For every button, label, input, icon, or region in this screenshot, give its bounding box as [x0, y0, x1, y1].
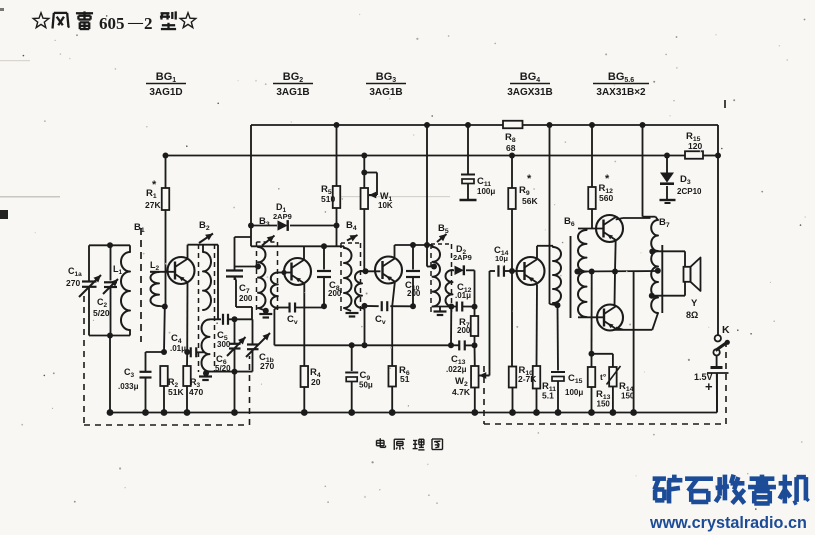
inductor L2	[150, 271, 159, 273]
junction dots tank	[107, 242, 113, 248]
junction dot Cv2 left	[362, 303, 368, 309]
resistor R3	[186, 352, 188, 366]
volume potentiometer W2	[471, 366, 479, 388]
capacitor C10	[412, 245, 414, 270]
junction dot C13 left	[448, 342, 454, 348]
svg-text:2-7K: 2-7K	[518, 374, 537, 384]
antenna bar B1 (dashed)	[140, 228, 142, 342]
capacitor C3	[140, 371, 152, 373]
wire BG2 base	[278, 272, 291, 274]
resistor R12	[591, 125, 593, 187]
svg-text:51K: 51K	[168, 387, 184, 397]
wire B3 primary bottom to ground	[258, 308, 266, 311]
wire BG4 collector	[536, 246, 538, 258]
junction dot base node	[363, 268, 369, 274]
svg-text:50μ: 50μ	[359, 381, 373, 390]
svg-text:K: K	[722, 324, 730, 336]
wire B4 primary bottom ground	[344, 308, 351, 311]
junction dots ground rail	[107, 409, 114, 416]
transistor BG3	[375, 257, 402, 284]
svg-text:—: —	[127, 15, 144, 31]
wire bottom ground rail	[110, 412, 717, 414]
svg-text:270: 270	[66, 278, 80, 288]
svg-text:t°: t°	[600, 372, 607, 382]
transformer B7 feed from rail	[642, 125, 644, 217]
junction dot bottom node	[232, 369, 238, 375]
svg-text:20: 20	[311, 377, 321, 387]
wire branch to C7	[235, 236, 252, 238]
wire collector load vertical	[217, 245, 219, 320]
wire B4 secondary bottom riser	[362, 308, 365, 309]
junction dots top rail	[334, 122, 340, 128]
wire BG4 base	[512, 270, 525, 272]
transformer B4 secondary	[355, 271, 362, 308]
transformer B3 secondary	[271, 273, 278, 309]
resistor R11	[533, 366, 541, 389]
svg-text:100μ: 100μ	[565, 388, 583, 397]
svg-text:2CP10: 2CP10	[677, 187, 702, 196]
neutralizing capacitor Cv (BG2)	[288, 303, 290, 313]
transformer B6 secondary upper	[578, 230, 587, 272]
wire bias top link	[592, 353, 613, 355]
svg-text:3AG1B: 3AG1B	[276, 87, 309, 98]
junction dot collector bus	[410, 242, 416, 248]
wire supply drop to B6	[549, 125, 551, 304]
junction dots C8	[321, 243, 327, 249]
svg-text:150: 150	[597, 400, 611, 409]
wire long AF/AGC bus	[274, 344, 451, 346]
transformer B3 primary	[257, 245, 259, 248]
svg-text:*: *	[605, 173, 610, 185]
wire BG3 base	[362, 270, 381, 272]
wire B3 tap	[235, 266, 259, 268]
junction dot B5 ground node	[448, 304, 454, 310]
svg-text:*: *	[152, 179, 157, 191]
svg-text:2AP9: 2AP9	[273, 212, 292, 221]
dashed link W2 to switch K	[483, 366, 485, 424]
junction dots second rail	[163, 153, 169, 159]
svg-text:200: 200	[328, 289, 342, 298]
capacitor C7	[234, 267, 236, 270]
wire main vertical to C4 node	[163, 307, 166, 353]
svg-text:200: 200	[407, 289, 421, 298]
battery 1.5V	[716, 356, 718, 367]
transistor BG6	[597, 305, 623, 331]
wire C3 branch	[146, 351, 165, 353]
capacitor C5	[218, 318, 221, 320]
wire D2 cathode riser	[474, 270, 476, 306]
capacitor C9 (electrolytic)	[351, 345, 353, 371]
resistor R6	[388, 366, 396, 387]
svg-text:.01μ: .01μ	[170, 344, 186, 353]
transformer B7 core	[661, 245, 663, 313]
transformer B6 primary	[552, 246, 554, 247]
transformer B2 primary winding	[202, 245, 204, 252]
resistor R1	[165, 156, 167, 189]
transformer B3 shield (dashed) with arrow	[256, 242, 258, 311]
junction dots emitter bus	[574, 269, 580, 275]
svg-text:.01μ: .01μ	[455, 291, 471, 300]
wire BG5 collector	[616, 218, 623, 220]
svg-text:68: 68	[506, 143, 516, 153]
svg-text:10K: 10K	[378, 201, 393, 210]
wire BG6 collector	[614, 272, 617, 306]
svg-text:4.7K: 4.7K	[452, 387, 471, 397]
resistor R2	[160, 366, 168, 386]
wire BG1 collector	[187, 245, 189, 259]
junction dot R7 bottom	[472, 342, 478, 348]
switch K	[715, 335, 721, 341]
variable capacitor C1a	[82, 280, 97, 282]
svg-text:270: 270	[260, 361, 274, 371]
wire B3 secondary bottom riser	[274, 308, 277, 309]
svg-text:3AGX31B: 3AGX31B	[507, 87, 553, 98]
diode D2 2AP9	[453, 269, 455, 271]
junction dot B5 tap	[431, 264, 437, 270]
svg-text:8Ω: 8Ω	[686, 310, 698, 320]
resistor R10	[511, 271, 513, 367]
potentiometer W1 (AGC)	[363, 156, 365, 189]
svg-text:Y: Y	[691, 298, 698, 309]
transformer B6 core	[570, 236, 572, 318]
variable capacitor C1b	[252, 319, 254, 344]
svg-text:*: *	[527, 173, 532, 185]
wire BG5 emitter	[614, 240, 617, 272]
wire BG2 emitter	[303, 284, 305, 308]
wire BG2 collector	[303, 246, 305, 259]
transistor BG2	[284, 258, 311, 285]
wire BG3 collector	[394, 245, 396, 258]
wire C7 bottom to C1b top node	[235, 277, 237, 280]
wire W2 wiper riser to C14	[489, 271, 491, 376]
wire BG5 base	[586, 229, 588, 231]
svg-text:3AX31B×2: 3AX31B×2	[596, 87, 646, 98]
wire node to C1b riser	[235, 318, 253, 320]
wire osc top node	[210, 318, 219, 320]
svg-text:5/20: 5/20	[93, 308, 110, 318]
wire tank bottom	[89, 335, 130, 337]
transformer B6 secondary lower	[578, 272, 587, 317]
wire BG6 base	[586, 316, 588, 318]
svg-text:2AP9: 2AP9	[453, 253, 472, 262]
junction dots B7 taps	[649, 249, 655, 255]
resistor R8 (inline top rail)	[503, 121, 523, 129]
svg-text:100μ: 100μ	[477, 187, 495, 196]
junction dot C12 right	[472, 304, 478, 310]
junction dot emitters node	[612, 269, 618, 275]
watermark 矿石收音机	[653, 476, 666, 481]
ground B5	[439, 307, 441, 311]
resistor R15 (inline second rail)	[685, 151, 703, 159]
svg-text:51: 51	[400, 374, 410, 384]
junction dot emitter node	[184, 349, 190, 355]
resistor R5	[336, 125, 338, 186]
transformer B5 shield (dashed) with arrow	[430, 244, 432, 312]
capacitor C8	[323, 246, 325, 269]
wire BG3 emitter	[392, 283, 395, 307]
caption 电原理图	[379, 438, 381, 447]
wire detector bus BG2	[274, 307, 288, 309]
capacitor C12	[456, 302, 458, 312]
junction dot L2 bottom	[162, 304, 168, 310]
wire right edge vertical	[717, 125, 719, 335]
junction dots D1 wire	[248, 223, 254, 229]
gang link dashed C1a-C1b	[83, 296, 85, 425]
wire BG1 emitter	[186, 283, 188, 353]
wire battery riser right	[716, 373, 718, 413]
svg-text:605: 605	[99, 14, 125, 33]
transformer B7 primary	[656, 217, 659, 220]
transformer B2 shield (dashed) with tuning arrow	[198, 244, 200, 372]
resistor R7	[474, 307, 476, 316]
capacitor C15 (electrolytic)	[557, 305, 560, 370]
svg-text:200: 200	[457, 326, 471, 335]
thermistor R14	[612, 354, 614, 367]
wire detector output bus	[433, 306, 457, 308]
title 风雷 605-2 型	[33, 13, 49, 28]
neutralizing capacitor Cv (BG3)	[381, 301, 383, 311]
svg-text:470: 470	[189, 387, 203, 397]
wire tank top	[89, 244, 130, 246]
scan artifacts	[265, 83, 267, 85]
svg-text:5.1: 5.1	[542, 391, 554, 401]
svg-text:510: 510	[321, 194, 335, 204]
wire emitter to R4	[303, 308, 305, 367]
trimmer capacitor C6	[234, 319, 236, 343]
wire emitters to ground rail	[633, 272, 635, 413]
wire B5 tap	[427, 266, 434, 268]
capacitor C11 (electrolytic)	[467, 125, 469, 174]
svg-text:200: 200	[239, 294, 253, 303]
wire top rail drop to C7/B3	[250, 125, 252, 246]
svg-text:300: 300	[217, 340, 231, 349]
wire AF node riser	[450, 307, 452, 346]
loudspeaker Y	[684, 251, 686, 295]
svg-text:27K: 27K	[145, 200, 161, 210]
transformer B5 primary	[427, 244, 433, 246]
svg-text:120: 120	[688, 141, 702, 151]
resistor R4	[301, 366, 309, 387]
diode D3 2CP10	[666, 156, 668, 174]
wire detector bus BG3	[365, 305, 379, 307]
junction dot C10 bottom	[410, 303, 416, 309]
svg-text:+: +	[705, 379, 713, 394]
wire speaker top	[652, 250, 685, 252]
wire collector bus BG2 stage	[251, 245, 344, 247]
transformer B4 primary	[343, 246, 345, 248]
diode D1 2AP9	[251, 225, 277, 227]
svg-text:10μ: 10μ	[495, 254, 508, 263]
wire left riser to ground rail	[109, 336, 111, 413]
junction dot C9 top	[349, 342, 355, 348]
junction dot BG4 base node	[509, 268, 515, 274]
svg-text:2: 2	[144, 14, 153, 33]
inductor L1	[129, 245, 131, 252]
junction dot osc winding bottom + ground	[203, 370, 209, 376]
capacitor C4	[187, 351, 191, 353]
svg-text:.022μ: .022μ	[446, 365, 467, 374]
wire R1 vertical to L2 bottom junction	[165, 272, 167, 307]
wire osc bottom node	[210, 371, 253, 373]
junction dot B6 primary bottom	[555, 302, 561, 308]
wire BG1 base	[150, 271, 175, 273]
wire second rail	[166, 155, 686, 157]
capacitor C14	[490, 270, 496, 272]
transformer B2 oscillator winding	[201, 320, 209, 372]
wire top rail drop to B5	[426, 125, 428, 267]
junction dot B4 secondary bottom	[362, 342, 368, 348]
wire speaker bottom	[652, 295, 685, 297]
transistor BG4	[517, 257, 545, 285]
svg-text:3AG1D: 3AG1D	[149, 87, 182, 98]
resistor R9	[511, 156, 513, 189]
junction dot B3 ground	[263, 308, 269, 314]
scan artifacts	[0, 210, 8, 219]
junction dot C5 right	[232, 316, 238, 322]
wire BG6 emitter	[616, 328, 623, 330]
wire tank left riser	[88, 245, 90, 281]
wire C6 riser to ground rail	[234, 372, 236, 413]
wire top supply rail	[251, 124, 503, 126]
junction dot C4 node	[161, 349, 167, 355]
junction dot B3 tap	[255, 264, 261, 270]
svg-text:3AG1B: 3AG1B	[369, 87, 402, 98]
capacitor C13	[458, 340, 460, 350]
svg-text:560: 560	[599, 193, 613, 203]
trimmer capacitor C2	[110, 245, 112, 280]
junction dot bias node	[589, 351, 595, 357]
transistor BG5	[596, 215, 623, 242]
svg-text:www.crystalradio.cn: www.crystalradio.cn	[649, 514, 807, 532]
svg-text:.033μ: .033μ	[118, 382, 139, 391]
svg-text:56K: 56K	[522, 196, 538, 206]
resistor R13	[591, 354, 593, 367]
transistor BG1	[168, 257, 195, 284]
wire emitter bus	[577, 270, 658, 273]
wire BG4 emitter	[536, 285, 539, 367]
wire bias riser R13/R14	[591, 272, 593, 354]
transformer B5 secondary	[445, 270, 452, 306]
transformer B4 shield (dashed) with arrow	[340, 243, 342, 312]
